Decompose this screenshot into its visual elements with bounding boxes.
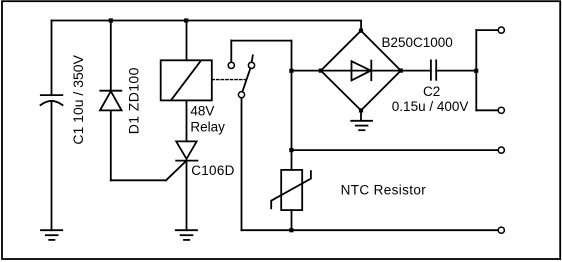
wire NC contact riser — [230, 41, 232, 63]
ground for SCR — [176, 230, 197, 240]
svg-text:C2: C2 — [423, 84, 440, 99]
capacitor C1 — [41, 95, 63, 105]
wire output stub top — [476, 29, 498, 31]
junction bridge top vertex — [359, 29, 363, 33]
wire bridge bottom ground lead — [360, 110, 362, 120]
ground for bridge — [351, 121, 372, 130]
contact circle left — [228, 62, 234, 68]
ground for C1 — [41, 230, 62, 240]
junction relay top — [184, 18, 188, 22]
wire right bus vertical — [291, 41, 293, 170]
thyristor C106D — [176, 141, 197, 160]
bridge rectifier B250C1000 — [321, 31, 401, 111]
wire bridge left link — [292, 70, 321, 72]
wire NTC top link — [292, 149, 498, 151]
wire bridge right to C2 — [401, 70, 431, 72]
wire C1 bottom lead — [51, 101, 53, 230]
svg-text:C1 10u / 350V: C1 10u / 350V — [70, 54, 86, 144]
svg-text:NTC Resistor: NTC Resistor — [341, 182, 427, 197]
wire output stub bottom — [476, 109, 498, 111]
wire D1 top lead — [110, 21, 112, 91]
junction right bus at bridge link — [289, 69, 293, 73]
wire C2 to output bus — [436, 70, 476, 72]
relay K1 coil box — [161, 60, 212, 100]
wire D1 bottom lead — [110, 110, 112, 180]
svg-text:Relay: Relay — [190, 119, 225, 134]
contact circle right — [248, 62, 254, 68]
NTC resistor — [271, 170, 311, 210]
relay actuator dashed link — [212, 79, 246, 81]
wire C1 top lead — [51, 21, 53, 96]
terminal DC plus — [498, 27, 504, 33]
junction bridge left vertex — [319, 69, 323, 73]
diode D1 — [100, 91, 122, 111]
wire SCR gate diagonal — [166, 161, 187, 181]
wire SCR gate horizontal — [111, 179, 166, 181]
junction D1 top — [109, 18, 113, 22]
terminal DC minus — [498, 107, 504, 113]
wire relay coil bottom lead — [186, 100, 188, 141]
junction NTC bottom — [289, 228, 293, 232]
terminal AC neutral — [498, 227, 504, 233]
junction bridge right vertex — [399, 69, 403, 73]
wire contact top link — [231, 40, 291, 42]
wire NO contact stub — [252, 55, 253, 62]
wire SCR cathode lead — [186, 161, 188, 231]
wire output bus vertical — [475, 30, 477, 110]
svg-text:B250C1000: B250C1000 — [382, 35, 453, 50]
wire NTC bottom lead — [291, 210, 293, 230]
capacitor C2 — [431, 60, 436, 79]
junction output bus at C2 — [474, 69, 478, 73]
terminal AC line — [498, 147, 504, 153]
switch arm — [242, 68, 250, 92]
svg-text:0.15u / 400V: 0.15u / 400V — [392, 99, 469, 114]
svg-text:D1 ZD100: D1 ZD100 — [125, 67, 141, 134]
wire relay coil top lead — [186, 21, 188, 61]
svg-text:48V: 48V — [190, 104, 214, 119]
junction NTC top — [289, 148, 293, 152]
junction bridge bottom vertex — [359, 108, 363, 112]
wire bottom rail — [242, 229, 498, 231]
wire common pole drop — [241, 98, 243, 230]
svg-text:C106D: C106D — [191, 163, 235, 178]
wire top rail — [52, 21, 362, 32]
contact circle common — [238, 92, 244, 98]
